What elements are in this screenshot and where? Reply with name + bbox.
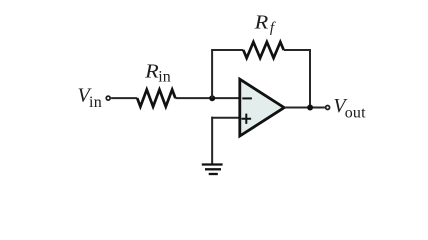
wire feedback top left — [211, 49, 243, 51]
wire op-amp plus input — [211, 117, 240, 119]
wire feedback left vertical — [211, 50, 213, 98]
svg-text:f: f — [270, 20, 276, 36]
wire feedback top right — [284, 49, 310, 51]
node output junction — [307, 105, 313, 111]
svg-text:R: R — [144, 60, 159, 82]
op-amp U1 — [240, 79, 284, 136]
node Vin terminal — [106, 96, 110, 100]
node inverting junction — [209, 95, 215, 101]
node Vout terminal — [326, 106, 330, 110]
svg-text:in: in — [158, 68, 170, 85]
resistor Rin — [137, 90, 175, 107]
wire output — [284, 107, 325, 109]
wire feedback right vertical — [309, 49, 311, 108]
wire input from Vin terminal to Rin — [111, 97, 137, 99]
svg-text:R: R — [253, 12, 268, 34]
resistor Rf — [243, 42, 283, 58]
wire ground vertical — [211, 117, 213, 165]
ground — [202, 165, 223, 175]
op-amp plus pin mark — [242, 114, 252, 124]
wire from Rin to op-amp inverting input — [175, 97, 240, 99]
op-amp minus pin mark — [242, 97, 252, 99]
svg-text:out: out — [345, 104, 366, 121]
svg-text:in: in — [89, 94, 102, 111]
